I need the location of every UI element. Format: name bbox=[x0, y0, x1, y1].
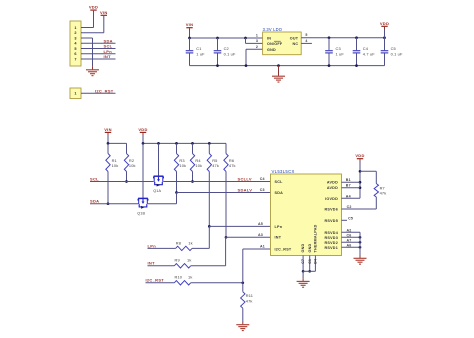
svg-text:VIN: VIN bbox=[186, 22, 194, 27]
svg-text:C5: C5 bbox=[391, 46, 396, 51]
svg-text:INT: INT bbox=[148, 261, 156, 266]
svg-text:C4: C4 bbox=[363, 46, 369, 51]
svg-text:5: 5 bbox=[305, 33, 307, 37]
svg-text:SCL: SCL bbox=[104, 44, 113, 49]
svg-text:1k: 1k bbox=[188, 275, 192, 280]
wire SCL bbox=[90, 181, 154, 183]
svg-text:C1: C1 bbox=[308, 259, 312, 264]
wire R7 to RSVD6 pin C2 bbox=[342, 208, 377, 210]
svg-text:47k: 47k bbox=[212, 163, 219, 168]
svg-text:47k: 47k bbox=[229, 163, 236, 168]
capacitor C2 bbox=[217, 38, 219, 50]
svg-text:VDD: VDD bbox=[89, 5, 98, 10]
svg-text:RSVD5: RSVD5 bbox=[324, 219, 338, 223]
svg-text:RSVD2: RSVD2 bbox=[324, 241, 338, 245]
wire input rail bbox=[190, 37, 263, 39]
wire AVDD pin B7 bbox=[342, 187, 361, 189]
svg-text:SCL: SCL bbox=[275, 180, 284, 184]
capacitor C1 bbox=[189, 38, 191, 50]
connector CON2 1-pin bbox=[70, 88, 81, 99]
wire GND pin 2 bbox=[309, 256, 311, 272]
resistor R8 1k bbox=[176, 246, 192, 250]
svg-text:INT: INT bbox=[104, 54, 112, 59]
ground bbox=[236, 324, 249, 326]
wire Q1B gate bbox=[142, 143, 144, 198]
wire pin2 to VIN bbox=[81, 32, 104, 34]
svg-text:4: 4 bbox=[305, 39, 307, 43]
transistor Q1A bbox=[154, 176, 164, 185]
wire SDALV bbox=[148, 203, 177, 205]
wire NC stub bbox=[301, 42, 312, 44]
svg-text:SDA: SDA bbox=[90, 199, 99, 204]
capacitor C3 bbox=[328, 38, 330, 51]
svg-text:C2: C2 bbox=[347, 205, 352, 209]
wire avdd vertical bbox=[359, 171, 361, 198]
svg-text:3: 3 bbox=[74, 36, 76, 40]
wire RSVD2 pin A7 bbox=[342, 241, 361, 243]
connector CON1 7-pin header bbox=[70, 21, 81, 66]
ground bbox=[86, 69, 99, 71]
svg-text:RSVD6: RSVD6 bbox=[324, 208, 338, 212]
wire INT bbox=[148, 265, 175, 267]
svg-text:A6: A6 bbox=[347, 243, 352, 247]
svg-text:SCLLV: SCLLV bbox=[238, 176, 252, 181]
svg-text:A2: A2 bbox=[347, 228, 352, 232]
svg-text:10k: 10k bbox=[195, 163, 202, 168]
svg-text:1: 1 bbox=[74, 92, 76, 96]
svg-text:SDA: SDA bbox=[275, 191, 284, 195]
wire rsvd vertical to ground bbox=[359, 232, 361, 255]
svg-text:47k: 47k bbox=[246, 298, 253, 303]
svg-text:1 uF: 1 uF bbox=[336, 51, 345, 56]
svg-text:LPn: LPn bbox=[148, 243, 157, 248]
wire ground stub bbox=[278, 66, 280, 76]
resistor R2 10k bbox=[126, 143, 128, 153]
svg-text:7: 7 bbox=[74, 57, 76, 61]
wire I2C_RST stub bbox=[81, 92, 116, 94]
svg-text:2: 2 bbox=[256, 45, 258, 49]
svg-text:THERMALPAD: THERMALPAD bbox=[314, 224, 318, 252]
svg-text:SCL: SCL bbox=[90, 176, 99, 181]
svg-text:IOVDD: IOVDD bbox=[325, 197, 338, 201]
wire RSVD5 stub pin C5 bbox=[342, 219, 348, 221]
svg-text:I2C_RST: I2C_RST bbox=[95, 88, 114, 93]
ground bbox=[354, 257, 367, 259]
wire SCLLV bbox=[163, 181, 270, 183]
resistor R1 10k bbox=[107, 143, 109, 153]
svg-text:VDD: VDD bbox=[355, 153, 364, 158]
svg-text:NC: NC bbox=[292, 42, 298, 46]
svg-text:AVDD: AVDD bbox=[327, 181, 338, 185]
wire pin6 LPn bbox=[81, 53, 116, 55]
svg-text:GND: GND bbox=[301, 243, 305, 252]
wire Q1A gate bbox=[158, 143, 160, 176]
svg-text:LPn: LPn bbox=[104, 49, 113, 54]
svg-text:C5: C5 bbox=[348, 216, 353, 220]
svg-text:LPn: LPn bbox=[275, 225, 283, 229]
capacitor C5 bbox=[384, 38, 386, 51]
svg-text:A7: A7 bbox=[347, 238, 352, 242]
svg-text:C7: C7 bbox=[301, 259, 305, 264]
svg-text:10k: 10k bbox=[112, 163, 119, 168]
svg-text:GND: GND bbox=[308, 243, 312, 252]
svg-text:1k: 1k bbox=[188, 240, 192, 245]
svg-text:A4: A4 bbox=[346, 194, 351, 198]
svg-text:B1: B1 bbox=[346, 178, 351, 182]
wire LPn bbox=[148, 247, 176, 249]
svg-text:5: 5 bbox=[74, 47, 76, 51]
wire pin1 to VDD bbox=[81, 27, 94, 29]
svg-text:ON/OFF: ON/OFF bbox=[267, 42, 283, 46]
wire RSVD1 pin A6 bbox=[342, 246, 361, 248]
wire VDD pullup rail bbox=[143, 142, 226, 144]
svg-text:I2C_RST: I2C_RST bbox=[146, 278, 165, 283]
ground bbox=[272, 75, 285, 77]
wire output rail bbox=[301, 37, 384, 39]
svg-text:RSVD3: RSVD3 bbox=[324, 236, 338, 240]
wire pin4 SDA bbox=[81, 42, 116, 44]
svg-text:SDALV: SDALV bbox=[238, 187, 253, 192]
wire I2C_RST bbox=[146, 282, 175, 284]
svg-text:1: 1 bbox=[256, 34, 258, 38]
svg-text:OUT: OUT bbox=[290, 36, 299, 40]
svg-text:D4: D4 bbox=[314, 259, 318, 264]
resistor R11 47k bbox=[242, 283, 244, 292]
svg-text:Q1B: Q1B bbox=[137, 211, 145, 215]
svg-text:3.3V LDO: 3.3V LDO bbox=[263, 27, 283, 32]
svg-text:VDD: VDD bbox=[138, 127, 147, 132]
svg-text:RSVD1: RSVD1 bbox=[324, 246, 338, 250]
svg-text:4.7 uF: 4.7 uF bbox=[363, 51, 375, 56]
svg-text:C3: C3 bbox=[260, 188, 265, 192]
resistor R4 10k bbox=[192, 143, 194, 153]
wire GND pin 1 bbox=[302, 256, 304, 272]
svg-text:SDA: SDA bbox=[104, 38, 113, 43]
wire I2C_RST to IC bbox=[191, 282, 243, 284]
svg-text:IN: IN bbox=[267, 36, 271, 40]
wire RSVD3 pin C6 bbox=[342, 236, 361, 238]
svg-text:VIN: VIN bbox=[100, 10, 108, 15]
svg-text:0.1 uF: 0.1 uF bbox=[391, 51, 403, 56]
svg-text:C6: C6 bbox=[347, 233, 352, 237]
svg-text:1: 1 bbox=[74, 26, 76, 30]
ground bbox=[297, 280, 310, 282]
svg-text:I2C_RST: I2C_RST bbox=[275, 247, 292, 251]
ic U1 VL53L5CX bbox=[271, 174, 342, 256]
wire THERMALPAD pin bbox=[314, 256, 316, 272]
svg-text:10k: 10k bbox=[129, 163, 136, 168]
resistor R3 10k bbox=[176, 143, 178, 153]
wire ON/OFF tie to IN bbox=[245, 38, 247, 43]
resistor R10 1k bbox=[174, 281, 190, 285]
svg-text:INT: INT bbox=[275, 236, 282, 240]
resistor R5 47k bbox=[208, 143, 210, 153]
svg-text:C1: C1 bbox=[196, 46, 201, 51]
svg-text:1k: 1k bbox=[187, 258, 191, 263]
wire pin3 to ground bbox=[81, 37, 93, 39]
svg-text:VDD: VDD bbox=[380, 21, 389, 26]
svg-text:C2: C2 bbox=[224, 46, 229, 51]
svg-text:3: 3 bbox=[256, 39, 258, 43]
wire RSVD4 pin A2 bbox=[342, 231, 361, 233]
svg-text:AVDD: AVDD bbox=[327, 186, 338, 190]
resistor R9 1k bbox=[174, 264, 190, 268]
resistor R7 47k bbox=[375, 171, 377, 183]
svg-text:A3: A3 bbox=[258, 233, 263, 237]
wire AVDD pin B1 bbox=[342, 181, 361, 183]
svg-text:Q1A: Q1A bbox=[153, 189, 161, 193]
wire INT to IC bbox=[191, 265, 226, 267]
wire SDA bbox=[90, 203, 138, 205]
svg-text:B7: B7 bbox=[346, 184, 351, 188]
svg-text:2: 2 bbox=[74, 31, 76, 35]
svg-text:RSVD4: RSVD4 bbox=[324, 231, 338, 235]
transistor Q1B bbox=[138, 198, 148, 207]
svg-text:1 uF: 1 uF bbox=[196, 51, 205, 56]
svg-text:10k: 10k bbox=[179, 163, 186, 168]
svg-text:R8: R8 bbox=[176, 240, 181, 245]
svg-text:0.1 uF: 0.1 uF bbox=[224, 51, 236, 56]
svg-text:VIN: VIN bbox=[104, 127, 112, 132]
svg-text:C4: C4 bbox=[260, 177, 265, 181]
resistor R6 47k bbox=[225, 143, 227, 153]
capacitor C4 bbox=[356, 38, 358, 51]
svg-text:VL53L5CX: VL53L5CX bbox=[272, 169, 295, 174]
wire gnd join bbox=[303, 270, 315, 272]
regulator U2 3.3V LDO bbox=[263, 32, 302, 55]
svg-text:R10: R10 bbox=[175, 275, 183, 280]
wire GND pin to bottom rail bbox=[246, 48, 263, 50]
wire LPn to IC bbox=[192, 247, 209, 249]
svg-text:47k: 47k bbox=[380, 191, 387, 196]
svg-text:GND: GND bbox=[267, 48, 276, 52]
wire pin5 SCL bbox=[81, 48, 116, 50]
svg-text:R9: R9 bbox=[175, 258, 180, 263]
wire pin7 INT bbox=[81, 58, 116, 60]
wire VDD to R7 bbox=[360, 170, 376, 172]
wire VIN pullup rail bbox=[108, 142, 127, 144]
svg-text:6: 6 bbox=[74, 52, 76, 56]
svg-text:A1: A1 bbox=[260, 245, 265, 249]
wire ground rail bbox=[190, 65, 385, 67]
svg-text:C3: C3 bbox=[336, 46, 341, 51]
wire IOVDD pin A4 bbox=[342, 197, 361, 199]
svg-text:A5: A5 bbox=[258, 222, 263, 226]
